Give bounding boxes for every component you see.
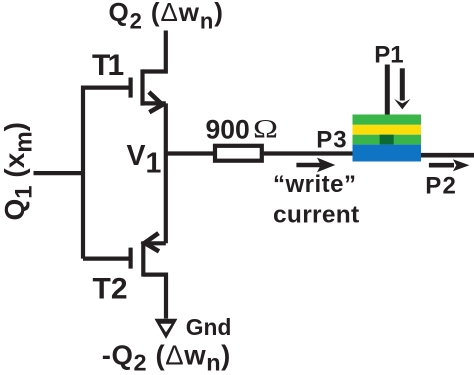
device green layer 2 bbox=[353, 135, 422, 145]
transistor T1 source bbox=[143, 101, 166, 105]
wire V1 to resistor bbox=[166, 151, 213, 155]
svg-text:Gnd: Gnd bbox=[186, 314, 232, 340]
device yellow layer bbox=[353, 125, 422, 135]
transistor T2 channel bbox=[141, 241, 145, 276]
resistor 900 ohm bbox=[215, 146, 262, 161]
device blue bottom layer bbox=[353, 145, 422, 162]
svg-text:P3: P3 bbox=[316, 127, 347, 154]
svg-text:T1: T1 bbox=[92, 49, 124, 82]
wire Q2 to T1 drain bbox=[143, 31, 166, 72]
wire resistor to device P3 terminal bbox=[264, 151, 353, 155]
transistor T1 channel bbox=[140, 69, 144, 105]
wire gate bus bbox=[81, 86, 85, 259]
write current arrow bbox=[296, 163, 324, 168]
svg-text:Ω: Ω bbox=[253, 114, 278, 144]
svg-text:900: 900 bbox=[206, 115, 250, 145]
transistor T2 gate bar bbox=[129, 248, 133, 269]
transistor T2 arrow bbox=[145, 233, 159, 251]
memristive device stack: top green layer bbox=[353, 115, 422, 125]
P2 current arrow bbox=[429, 163, 454, 168]
wire device to P2 bbox=[421, 153, 474, 158]
ground bbox=[155, 319, 178, 339]
svg-text:“write”: “write” bbox=[273, 171, 357, 198]
device dark green region bbox=[380, 135, 394, 145]
transistor T2 drain bbox=[143, 241, 166, 245]
wire T2 gate bbox=[83, 257, 129, 261]
wire T1 gate bbox=[83, 85, 129, 89]
svg-text:current: current bbox=[273, 202, 360, 229]
svg-text:T2: T2 bbox=[93, 273, 128, 306]
transistor T2 source and wire to ground bbox=[143, 275, 166, 319]
transistor T1 arrow bbox=[149, 92, 163, 112]
wire T1 source down to T2 drain (V1 rail) bbox=[164, 103, 168, 243]
P1 current arrow (down) bbox=[400, 68, 405, 100]
wire P1 to device top bbox=[385, 65, 390, 115]
transistor T1 gate bar bbox=[129, 78, 133, 98]
wire input Q1 bbox=[34, 171, 84, 175]
svg-text:P2: P2 bbox=[425, 173, 457, 200]
